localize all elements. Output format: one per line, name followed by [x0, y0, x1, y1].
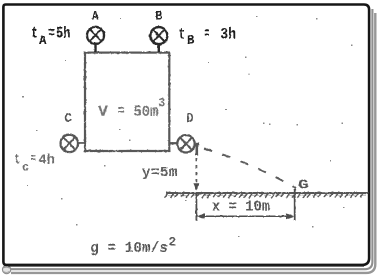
- svg-text:G: G: [298, 179, 309, 194]
- svg-text:y=5m: y=5m: [142, 165, 178, 181]
- svg-text:A: A: [39, 34, 47, 48]
- svg-text:C: C: [64, 111, 72, 127]
- svg-text:2: 2: [168, 235, 176, 250]
- svg-text:g = 10m/s: g = 10m/s: [90, 240, 168, 257]
- svg-text:3h: 3h: [220, 25, 236, 43]
- svg-text:=: =: [31, 151, 36, 166]
- svg-text:5h: 5h: [56, 25, 71, 43]
- svg-text:t: t: [14, 152, 20, 168]
- svg-text:B: B: [187, 33, 195, 47]
- svg-text:3: 3: [158, 97, 165, 111]
- svg-text:=: =: [204, 25, 209, 43]
- svg-text:4h: 4h: [38, 152, 55, 168]
- svg-text:A: A: [92, 9, 99, 23]
- svg-text:V: V: [98, 103, 109, 121]
- svg-text:t: t: [31, 25, 38, 43]
- svg-text:c: c: [22, 162, 29, 175]
- svg-text:=: =: [48, 25, 55, 43]
- svg-text:x = 10m: x = 10m: [212, 200, 271, 216]
- svg-text:50m: 50m: [133, 103, 158, 121]
- svg-text:=: =: [118, 104, 125, 120]
- svg-text:D: D: [186, 111, 193, 127]
- svg-text:t: t: [179, 25, 186, 43]
- svg-text:B: B: [155, 10, 162, 24]
